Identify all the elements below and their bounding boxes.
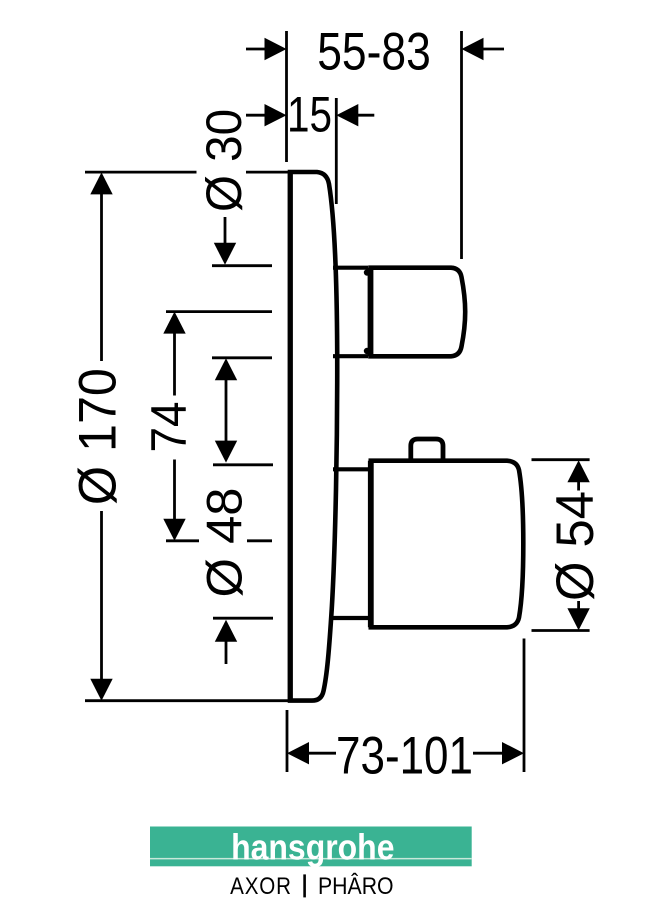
svg-text:AXOR: AXOR <box>230 873 292 900</box>
svg-text:Ø 54: Ø 54 <box>546 491 605 601</box>
svg-text:Ø 170: Ø 170 <box>69 368 128 505</box>
svg-text:73-101: 73-101 <box>336 727 473 786</box>
svg-text:hansgrohe: hansgrohe <box>231 827 394 868</box>
svg-text:PHÂRO: PHÂRO <box>318 873 394 900</box>
svg-text:Ø 48: Ø 48 <box>197 488 253 598</box>
svg-text:Ø 30: Ø 30 <box>196 109 252 212</box>
svg-text:55-83: 55-83 <box>317 23 431 82</box>
svg-text:15: 15 <box>287 86 332 142</box>
svg-text:74: 74 <box>141 402 197 453</box>
